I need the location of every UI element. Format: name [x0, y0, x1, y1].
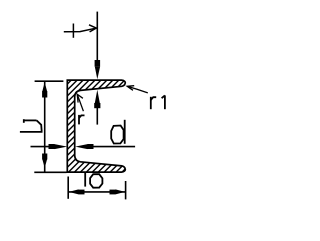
- hatching of section: [63, 77, 128, 175]
- b right arrow: [110, 190, 116, 195]
- r1 leader arrow: [127, 86, 148, 93]
- t dimension line above: [96, 12, 98, 61]
- h bottom extension line: [34, 171, 66, 173]
- h top arrow (up): [42, 82, 47, 91]
- b left extension line: [67, 177, 69, 199]
- label b: [85, 172, 102, 188]
- h top extension line: [35, 80, 64, 82]
- r leader arrow: [77, 94, 83, 111]
- h dimension line: [44, 82, 46, 172]
- d dimension right line+arrow: [75, 144, 87, 149]
- t bottom arrow (up): [95, 90, 100, 103]
- d dimension left line+arrow: [31, 146, 50, 148]
- b left arrow: [69, 189, 79, 194]
- label t with leader arrow: [64, 24, 97, 38]
- label h (rotated): [20, 119, 43, 132]
- b right extension line: [125, 181, 127, 199]
- label d: [111, 120, 125, 144]
- b dimension line: [68, 191, 125, 193]
- t top arrow (down): [95, 60, 101, 67]
- channel section outline: [67, 80, 125, 172]
- label r: [79, 115, 85, 125]
- label r1: [151, 95, 165, 109]
- h bottom arrow (down): [42, 154, 47, 160]
